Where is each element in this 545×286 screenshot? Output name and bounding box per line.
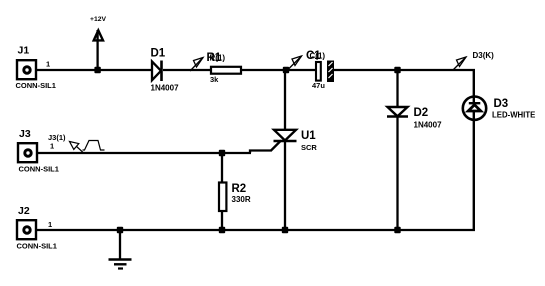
junction node R1/C1/U1 [283,67,289,73]
svg-text:+12V: +12V [90,16,107,23]
svg-text:CONN-SIL1: CONN-SIL1 [16,81,56,90]
wire J1 to D1 [36,69,152,71]
svg-text:330R: 330R [232,195,251,204]
svg-text:J2: J2 [18,205,30,217]
svg-text:J3(1): J3(1) [48,133,66,142]
connector J1 [17,60,36,79]
junction node R2 top [219,150,225,156]
wire ground rail [36,229,475,231]
LED D3 [463,69,486,231]
svg-text:1: 1 [50,142,54,151]
svg-text:SCR: SCR [301,143,317,152]
svg-text:1: 1 [48,220,52,229]
wire gate diagonal [271,141,282,152]
diode D1 [152,61,162,82]
svg-text:R1: R1 [207,52,222,64]
ground [109,230,132,269]
wire gate step [250,151,271,154]
svg-text:1: 1 [46,60,50,69]
junction node D2 top [394,67,400,73]
diode D2 [387,70,408,231]
wire R1 to C1 [242,69,315,71]
connector J2 [17,220,36,239]
junction node U1 bottom [282,227,288,233]
svg-text:U1: U1 [301,130,316,142]
connector J3 [18,143,37,162]
svg-text:D1: D1 [151,48,166,60]
svg-text:1N4007: 1N4007 [151,84,180,93]
svg-text:D2: D2 [414,107,429,119]
capacitor C1 [316,61,334,83]
junction node D2 bottom [394,227,400,233]
svg-text:J3: J3 [19,128,31,140]
resistor R2 [219,153,226,231]
wire C1 to corner [334,69,475,71]
net arrow D3(K) [453,57,466,70]
svg-text:R2: R2 [232,183,247,195]
generator arrow J3 [70,142,84,153]
svg-text:1N4007: 1N4007 [414,121,443,130]
svg-text:47u: 47u [312,81,325,90]
net arrow C(1) [289,56,302,69]
net arrow R(1) [190,58,203,72]
power +12V [94,30,103,70]
svg-text:CONN-SIL1: CONN-SIL1 [19,165,59,174]
svg-text:D3(K): D3(K) [473,51,495,60]
svg-text:3k: 3k [210,75,219,84]
junction node +12V / J1 wire [94,67,100,73]
svg-text:C1: C1 [306,50,321,62]
wire D1 to R1 [163,69,210,71]
resistor R1 [211,67,241,74]
svg-text:LED-WHITE: LED-WHITE [492,111,535,120]
generator pulse waveform [83,141,105,151]
junction node R2 bottom [219,227,225,233]
junction node ground [117,227,123,233]
SCR U1 [274,70,297,231]
svg-text:CONN-SIL1: CONN-SIL1 [17,242,57,251]
wire J3 to gate step [37,152,251,154]
svg-text:D3: D3 [494,98,509,110]
svg-text:J1: J1 [18,45,30,57]
